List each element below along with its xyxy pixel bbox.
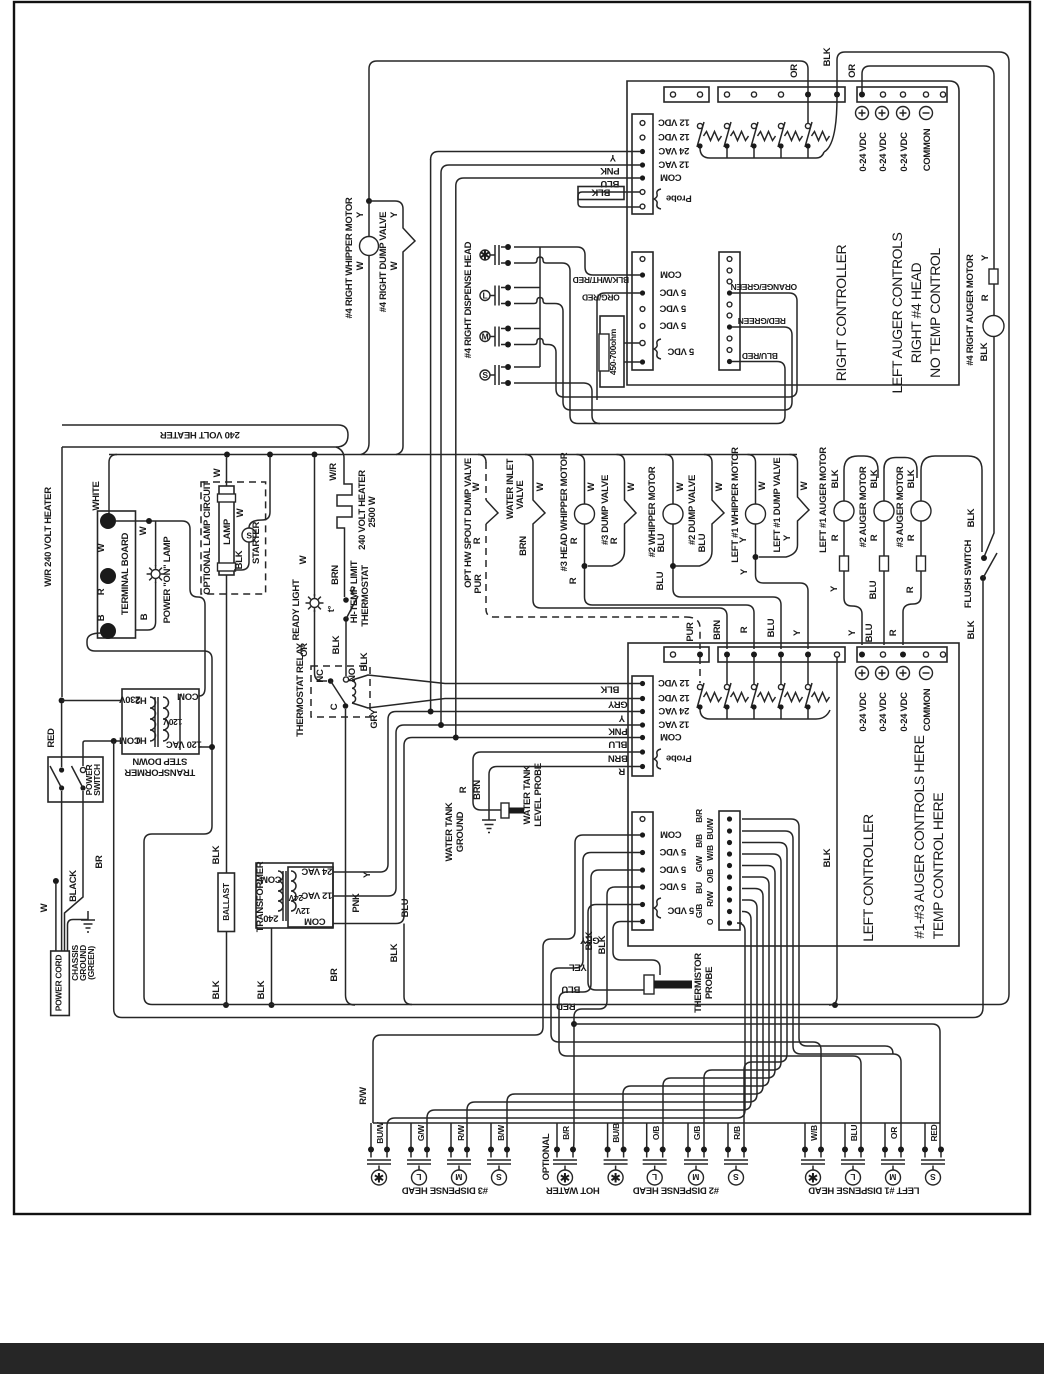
relay common bus (left ctrl) [700, 709, 830, 719]
box [654, 981, 692, 989]
wire [920, 521, 922, 556]
svg-text:B/B: B/B [694, 834, 704, 848]
left #1 dispense head M [881, 1147, 905, 1186]
terminal strip TS3 (right ctrl) [857, 87, 947, 102]
terminal circle [746, 504, 766, 524]
junction dot [582, 563, 588, 569]
junction dot [859, 652, 865, 658]
svg-text:12 VAC: 12 VAC [301, 890, 332, 901]
svg-text:R: R [980, 294, 991, 301]
svg-text:Y: Y [618, 713, 625, 724]
svg-text:RED: RED [46, 728, 57, 748]
svg-text:#3 DISPENSE HEAD: #3 DISPENSE HEAD [402, 1185, 488, 1196]
svg-text:O/B: O/B [705, 869, 715, 883]
wire J6 pin10 [387, 923, 745, 1150]
svg-text:BRN: BRN [330, 565, 341, 585]
svg-text:R/B: R/B [732, 1126, 742, 1140]
wire [234, 512, 270, 570]
svg-text:O/B: O/B [651, 1126, 661, 1140]
terminal strip TS5 (left ctrl) [718, 647, 845, 662]
wire [346, 587, 358, 619]
wire rail left end down to terminal board W post [109, 455, 117, 521]
svg-text:(GREEN): (GREEN) [86, 946, 96, 980]
wire M-lower [514, 339, 564, 398]
svg-text:✱: ✱ [808, 1171, 819, 1186]
W rail bus [109, 454, 797, 456]
wire [843, 521, 845, 556]
box [219, 486, 234, 575]
wire C down to lower bus [346, 709, 356, 1005]
wire BLK from transformer down to bus [271, 928, 273, 1005]
svg-text:R: R [739, 626, 750, 633]
svg-text:R: R [458, 786, 469, 793]
svg-text:LEFT #1 WHIPPER MOTOR: LEFT #1 WHIPPER MOTOR [730, 447, 741, 563]
svg-text:BLK: BLK [600, 684, 619, 695]
wire [624, 343, 640, 362]
junction dot [209, 744, 215, 750]
head symbols letters [374, 1171, 936, 1186]
svg-text:M: M [455, 1172, 462, 1182]
svg-text:BLK: BLK [966, 508, 977, 527]
svg-text:12 VAC: 12 VAC [658, 159, 689, 170]
svg-text:BLK: BLK [211, 980, 222, 999]
wire S-lower down the page [514, 383, 600, 424]
wire Y to J1 pin3 [431, 152, 640, 160]
wire [883, 571, 885, 645]
relay K8 [751, 683, 776, 710]
wire [331, 681, 346, 704]
junction dot [727, 816, 732, 821]
wire ORANGE/GREEN from J3 pin4 [564, 293, 797, 397]
svg-text:S: S [482, 370, 488, 380]
svg-text:5 VDC: 5 VDC [659, 303, 686, 314]
svg-text:COM: COM [660, 269, 682, 280]
svg-text:#4 RIGHT DISPENSE HEAD: #4 RIGHT DISPENSE HEAD [463, 241, 474, 358]
wire RED [574, 887, 641, 1150]
left #1 whipper motor M1 [748, 455, 756, 505]
svg-text:BLU: BLU [766, 618, 777, 637]
head group labels [402, 1133, 920, 1195]
svg-text:W/B: W/B [809, 1125, 819, 1141]
flush switch contacts SW [981, 555, 987, 561]
screw terminals 0-24VDC (right ctrl) [856, 107, 869, 120]
junction dot [80, 785, 85, 790]
junction dot [59, 767, 64, 772]
svg-text:R: R [905, 586, 916, 593]
connector J3 (right ctrl 10-pin) [719, 252, 740, 370]
svg-text:W: W [355, 261, 366, 270]
junction dot [640, 709, 645, 714]
wire [686, 617, 700, 683]
svg-text:W: W [675, 482, 686, 491]
wire [983, 553, 997, 578]
bottom black bar [0, 1343, 1044, 1374]
svg-text:BLU: BLU [608, 739, 627, 750]
#3 dispense head * [367, 1147, 391, 1186]
svg-text:12 VDC: 12 VDC [658, 131, 690, 142]
bottom common rail R/W [373, 1122, 940, 1124]
wire [585, 524, 755, 649]
svg-text:5 VDC: 5 VDC [659, 881, 686, 892]
wire J6 pin7 [507, 889, 763, 1150]
#3 dump valve V3 [588, 455, 636, 567]
svg-text:M: M [692, 1172, 699, 1182]
svg-text:BLU: BLU [561, 984, 580, 995]
wire PNK riser (12VAC) [441, 173, 640, 725]
probe loop wire with BLK tag [578, 192, 640, 207]
svg-text:Y: Y [738, 536, 749, 543]
lamp symbol [147, 565, 165, 583]
svg-text:W/R: W/R [328, 463, 339, 481]
svg-text:W: W [714, 482, 725, 491]
svg-text:BU/B: BU/B [611, 1123, 621, 1143]
collector wire from *-upper down (L,M,S uppers) [539, 247, 541, 367]
svg-text:24V: 24V [288, 893, 303, 903]
svg-text:L: L [850, 1172, 855, 1182]
svg-text:0-24 VDC: 0-24 VDC [858, 692, 869, 732]
svg-text:12 VDC: 12 VDC [658, 692, 690, 703]
wire RED junction to 230V tap [62, 700, 122, 702]
svg-text:BLK: BLK [591, 187, 610, 198]
svg-text:24 VAC: 24 VAC [301, 866, 332, 877]
svg-text:BLK: BLK [256, 980, 267, 999]
wire OR: TS2 pin4 up-left to whipper chain [369, 61, 808, 201]
svg-text:BALLAST: BALLAST [221, 882, 231, 921]
svg-text:COM: COM [260, 874, 282, 885]
wire RED through switch to power cord [61, 704, 63, 952]
svg-text:W/R 240 VOLT HEATER: W/R 240 VOLT HEATER [43, 487, 54, 587]
svg-text:BLK: BLK [597, 935, 608, 954]
svg-text:#4 RIGHT DUMP VALVE: #4 RIGHT DUMP VALVE [378, 212, 389, 312]
svg-text:VALVE: VALVE [515, 481, 526, 510]
wire OR from TS2 pin4 down to relay K5 [807, 97, 809, 123]
left #1 auger motor [844, 456, 878, 501]
svg-text:BLU: BLU [868, 580, 879, 599]
svg-text:B/W: B/W [496, 1124, 506, 1141]
wire BLU/RED from J3 pin10 [578, 362, 785, 424]
svg-text:COM: COM [660, 731, 682, 742]
#3 dispense head M [447, 1147, 471, 1186]
wire J6 pin6 [623, 877, 769, 1150]
junction dot [670, 563, 676, 569]
terminal circle [575, 504, 595, 524]
svg-text:R: R [609, 537, 620, 544]
junction dot [343, 616, 349, 622]
#2 dispense head * [604, 1147, 628, 1186]
svg-text:Y: Y [739, 568, 750, 575]
svg-text:B: B [96, 614, 107, 621]
junction dot [100, 513, 116, 529]
node rail-starter [267, 452, 273, 458]
svg-text:BRN: BRN [712, 620, 723, 640]
head switch S [480, 364, 511, 386]
svg-text:RED: RED [929, 1124, 939, 1141]
left #1 dispense head S [921, 1147, 945, 1186]
wire [485, 462, 487, 500]
svg-text:PROBE: PROBE [704, 967, 715, 999]
svg-text:LEFT AUGER CONTROLS: LEFT AUGER CONTROLS [889, 232, 905, 393]
#3 dispense head L [407, 1147, 431, 1186]
head switch M [480, 326, 511, 348]
relay K4 [778, 122, 803, 149]
wire Y riser (24VAC) [431, 159, 640, 712]
junction dot [111, 738, 117, 744]
junction dot [805, 92, 811, 98]
#2 auger motor [884, 458, 917, 502]
wire J6 pin8 [467, 900, 757, 1150]
svg-text:BLK: BLK [966, 620, 977, 639]
svg-text:5 VDC: 5 VDC [659, 320, 686, 331]
svg-text:OPTIONAL LAMP CIRCUIT: OPTIONAL LAMP CIRCUIT [202, 481, 213, 595]
svg-text:W: W [298, 555, 309, 564]
wire J6 pin1 [742, 819, 893, 1054]
svg-text:R/W: R/W [358, 1087, 369, 1105]
svg-text:OPT HW SPOUT DUMP VALVE: OPT HW SPOUT DUMP VALVE [463, 458, 474, 588]
left #1 dispense head L [841, 1147, 865, 1186]
wire [482, 820, 496, 833]
node rail-lamp [224, 452, 230, 458]
wire ballast to bus [226, 932, 228, 1006]
wire J6 pin4 [704, 854, 781, 1150]
junction dot [269, 1002, 275, 1008]
svg-text:ORANGE/GREEN: ORANGE/GREEN [731, 282, 797, 292]
screw terminals 0-24VDC (left ctrl) [856, 667, 869, 680]
svg-text:BLK: BLK [211, 845, 222, 864]
svg-text:R: R [568, 577, 579, 584]
opt hw spout dump valve V5 (dashed) [478, 455, 486, 463]
terminal strip TS6 (left ctrl) [857, 647, 947, 662]
svg-text:THERMOSTAT: THERMOSTAT [360, 565, 371, 627]
terminal strip TS4 (left ctrl) [664, 647, 709, 662]
svg-text:B: B [139, 613, 150, 620]
svg-text:BLU/RED: BLU/RED [742, 351, 778, 361]
svg-text:BLU: BLU [864, 623, 875, 642]
junction dot [453, 735, 459, 741]
svg-text:12V: 12V [295, 906, 310, 916]
wire B post loop to transformer [87, 633, 212, 747]
terminal circle [724, 92, 729, 97]
svg-text:5 VDC: 5 VDC [667, 346, 694, 357]
box [578, 187, 624, 200]
svg-text:H2: H2 [135, 695, 147, 706]
svg-text:GRY: GRY [369, 708, 380, 728]
svg-text:BLK: BLK [359, 652, 370, 671]
chassis ground symbol [81, 911, 95, 932]
svg-text:R/W: R/W [705, 890, 715, 907]
starter [269, 458, 271, 513]
wire RED to left #1 S head [574, 1024, 940, 1150]
wire [345, 621, 347, 676]
svg-text:✱: ✱ [480, 248, 491, 263]
svg-text:S: S [496, 1172, 502, 1182]
junction dot [727, 257, 732, 262]
junction dot [100, 568, 116, 584]
wire green to chassis ground [68, 920, 89, 952]
svg-text:OR: OR [847, 64, 858, 78]
svg-text:LEFT #1 AUGER MOTOR: LEFT #1 AUGER MOTOR [818, 447, 829, 553]
svg-text:✱: ✱ [610, 1171, 621, 1186]
wire [352, 675, 640, 708]
box [880, 556, 889, 571]
svg-text:R: R [869, 534, 880, 541]
wire [486, 500, 498, 524]
box [840, 556, 849, 571]
svg-text:NO TEMP CONTROL: NO TEMP CONTROL [927, 248, 943, 378]
svg-text:R/W: R/W [456, 1124, 466, 1141]
box [288, 867, 333, 927]
wire lamp W branch to transformer COM path [182, 521, 205, 696]
wire OR: TS3 pin1 up, right, down to flush switch [862, 66, 994, 557]
left controller box U1 [628, 643, 959, 946]
wire W from cord (dead end) [55, 884, 57, 951]
junction dot [223, 1002, 229, 1008]
svg-text:✱: ✱ [560, 1171, 571, 1186]
svg-text:WATER TANK: WATER TANK [522, 765, 533, 824]
svg-text:HOT WATER: HOT WATER [546, 1185, 600, 1196]
wire [903, 571, 921, 645]
svg-text:R: R [888, 629, 899, 636]
relay K6 (left ctrl) [697, 683, 722, 710]
node RED branch [571, 1021, 577, 1027]
optional lamp circuit dashed box [201, 482, 266, 594]
svg-text:#1-#3 AUGER CONTROLS HERE: #1-#3 AUGER CONTROLS HERE [911, 735, 927, 938]
svg-text:#3 AUGER MOTOR: #3 AUGER MOTOR [895, 466, 906, 547]
wire L-lower [514, 298, 571, 411]
svg-text:LEVEL PROBE: LEVEL PROBE [533, 763, 544, 827]
#4 right whipper motor M4 [360, 237, 379, 256]
svg-text:Y: Y [389, 211, 400, 218]
svg-text:BU: BU [694, 882, 704, 894]
svg-text:PNK: PNK [351, 893, 362, 913]
svg-text:R: R [472, 537, 483, 544]
svg-text:BLK: BLK [830, 469, 841, 488]
svg-text:YEL: YEL [569, 962, 587, 973]
svg-text:Probe: Probe [666, 753, 691, 764]
optional hot water head * [553, 1147, 577, 1186]
svg-text:BLK: BLK [906, 469, 917, 488]
svg-text:W: W [799, 481, 810, 490]
wire [72, 766, 84, 788]
svg-text:BLU: BLU [697, 533, 708, 552]
wire GRY [373, 835, 640, 1123]
wire from TS5 pins down to relays [727, 657, 808, 684]
svg-text:TEMP CONTROL HERE: TEMP CONTROL HERE [930, 793, 946, 940]
junction dot [146, 518, 152, 524]
balloon 240 VOLT HEATER [62, 425, 348, 447]
svg-text:#2 DISPENSE HEAD: #2 DISPENSE HEAD [633, 1185, 719, 1196]
svg-text:SWITCH: SWITCH [92, 764, 102, 796]
wire BR from COM junction down [114, 741, 122, 1018]
#3 head whipper motor M3 [577, 455, 585, 505]
svg-text:BLK: BLK [869, 469, 880, 488]
svg-text:BLK: BLK [389, 943, 400, 962]
svg-text:Probe: Probe [666, 193, 691, 204]
wire [315, 610, 328, 681]
right controller box U2 [627, 81, 959, 385]
svg-text:BLU: BLU [655, 571, 666, 590]
wire [654, 898, 661, 918]
svg-text:BLK: BLK [822, 47, 833, 66]
svg-text:G/W: G/W [694, 855, 704, 872]
svg-text:READY LIGHT: READY LIGHT [291, 579, 302, 640]
wire BLU riser (COM) [456, 186, 640, 738]
svg-text:S: S [733, 1172, 739, 1182]
svg-text:R: R [830, 534, 841, 541]
wire [486, 524, 686, 617]
svg-text:#4 RIGHT AUGER MOTOR: #4 RIGHT AUGER MOTOR [965, 254, 976, 366]
svg-text:W: W [96, 543, 107, 552]
svg-text:L: L [652, 1172, 657, 1182]
wire 120VAC out to ballast chain [144, 747, 212, 1005]
svg-text:5 VDC: 5 VDC [659, 287, 686, 298]
svg-text:BRN: BRN [472, 780, 483, 800]
svg-text:RIGHT CONTROLLER: RIGHT CONTROLLER [833, 244, 849, 381]
power cord box [51, 951, 70, 1016]
junction dot [53, 878, 59, 884]
ready light chain [314, 458, 316, 597]
terminal circle [640, 121, 645, 126]
svg-text:0-24 VDC: 0-24 VDC [899, 132, 910, 172]
connector J5 (left ctrl 7-pin) [632, 812, 653, 930]
wire COM H1 to power switch [83, 741, 122, 766]
svg-text:PUR: PUR [685, 622, 696, 642]
junction dot [428, 709, 434, 715]
svg-text:240: 240 [264, 913, 279, 924]
svg-text:BLACK: BLACK [68, 870, 79, 902]
svg-text:C: C [329, 703, 340, 710]
svg-text:12 VDC: 12 VDC [658, 117, 690, 128]
wire YEL [551, 853, 821, 1150]
wire BRN J4 pin6 to water tank level probe [473, 752, 640, 810]
probe brace + label (right ctrl) [654, 189, 661, 209]
svg-text:PNK: PNK [600, 165, 620, 176]
thermostat relay contacts [328, 678, 334, 684]
box [509, 808, 524, 814]
water inlet valve V6 [525, 455, 727, 650]
svg-text:W: W [39, 903, 50, 912]
wire COM out up to BLU junction [333, 738, 456, 1005]
wire [179, 694, 181, 750]
svg-text:TRANSFORMER: TRANSFORMER [124, 767, 195, 778]
thermistor probe [644, 975, 654, 994]
svg-text:W: W [626, 482, 637, 491]
svg-text:BLK: BLK [234, 550, 245, 569]
svg-text:#4 RIGHT WHIPPER MOTOR: #4 RIGHT WHIPPER MOTOR [344, 197, 355, 318]
svg-text:BRN: BRN [518, 536, 529, 556]
svg-text:0-24 VDC: 0-24 VDC [858, 132, 869, 172]
box [599, 334, 609, 371]
svg-text:0-24 VDC: 0-24 VDC [899, 692, 910, 732]
junction dot [438, 722, 444, 728]
svg-text:HI-TEMP LIMIT: HI-TEMP LIMIT [349, 560, 360, 623]
resistor 450-700ohm [600, 316, 624, 387]
svg-text:12 VAC: 12 VAC [658, 719, 689, 730]
svg-text:24 VAC: 24 VAC [658, 705, 689, 716]
svg-text:BR: BR [94, 855, 105, 869]
wire BLK: TS2 pin5 up, right, down right side to bus [837, 52, 1009, 1005]
#3 dispense head S [487, 1147, 511, 1186]
connector J1 (right ctrl 8-pin) [632, 114, 653, 214]
svg-text:G/B: G/B [694, 904, 704, 918]
svg-text:B/R: B/R [694, 809, 704, 823]
svg-text:WATER TANK: WATER TANK [444, 802, 455, 861]
terminal strip TS2 (right ctrl) [718, 87, 845, 102]
svg-text:Y: Y [829, 585, 840, 592]
svg-text:BLK: BLK [822, 848, 833, 867]
wire BLU to J1 pin5 [456, 178, 640, 186]
terminal circle [670, 92, 675, 97]
bus BLK (y1005) [152, 1004, 999, 1006]
